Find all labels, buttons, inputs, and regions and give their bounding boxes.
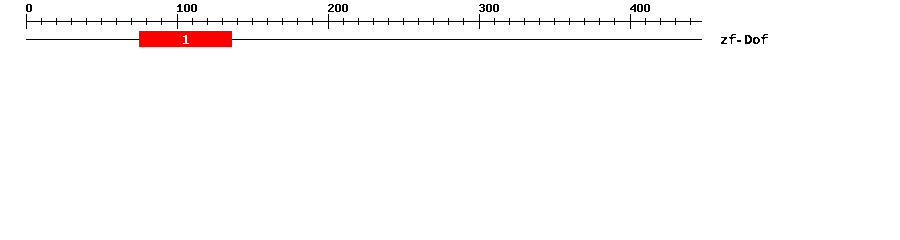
major tick 300: [479, 14, 480, 29]
ruler number 0: [26, 4, 32, 12]
ruler number 300: [479, 4, 499, 12]
major tick 400: [630, 14, 631, 29]
domain number 1 (white, inside box): [183, 35, 189, 44]
ruler number 100: [177, 4, 197, 12]
major tick 200: [328, 14, 329, 29]
major tick 100: [177, 14, 178, 29]
minor ticks (every 10 residues): [41, 18, 691, 25]
major tick 0: [26, 14, 27, 29]
background: [0, 0, 900, 58]
ruler number 200: [328, 4, 348, 12]
label zf-Dof: [721, 34, 768, 44]
ruler number 400: [630, 4, 650, 12]
sequence backbone line: [26, 39, 702, 40]
ruler axis line: [26, 21, 702, 22]
domain box 1 (zf-Dof), red: [139, 31, 232, 47]
